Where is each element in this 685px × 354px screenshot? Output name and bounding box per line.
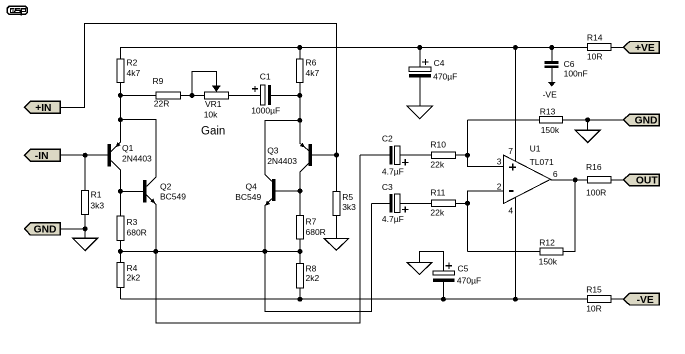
resistor R14: [587, 32, 611, 61]
wire Q2 collector branch: [120, 120, 155, 187]
wire R3 bottom stub: [119, 240, 121, 251]
resistor R7: [297, 215, 326, 239]
svg-text:4: 4: [508, 205, 513, 215]
wire pin2 riser and stub: [468, 191, 504, 251]
node Q3 base junction: [334, 153, 339, 158]
transistor Q1: [108, 142, 152, 191]
svg-text:C2: C2: [382, 134, 393, 144]
resistor R13: [540, 107, 563, 136]
wire emitter bus: [120, 250, 300, 252]
svg-text:GND: GND: [635, 116, 658, 127]
svg-text:C5: C5: [458, 264, 469, 274]
node R3/R4 bus: [118, 249, 123, 254]
resistor R3: [117, 216, 147, 240]
wire R14 to +VE tag: [611, 47, 623, 49]
svg-text:R10: R10: [430, 140, 446, 150]
wire R11 to pin2 node: [456, 202, 468, 204]
svg-text:100nF: 100nF: [564, 68, 588, 78]
wire C1 right to R6 node: [271, 94, 300, 96]
svg-text:R16: R16: [586, 162, 602, 172]
wire Q3 base stub: [312, 154, 337, 156]
node GND/R1 junction: [83, 226, 88, 231]
wire R16 to OUT tag: [611, 179, 623, 181]
node C5 on -V bus: [441, 297, 446, 302]
wire R4 bottom stub: [119, 287, 121, 299]
wire R15 to -VE tag: [611, 298, 623, 300]
svg-text:R6: R6: [306, 58, 317, 68]
svg-text:470µF: 470µF: [433, 71, 457, 81]
svg-text:R1: R1: [91, 190, 102, 200]
wire C3 to R11: [400, 202, 432, 204]
ground under R5: [324, 239, 349, 251]
ground right of R13: [575, 130, 600, 142]
node GND junction right: [585, 117, 590, 122]
svg-text:Q2: Q2: [160, 181, 172, 191]
svg-text:C3: C3: [382, 182, 393, 192]
svg-text:6: 6: [553, 169, 558, 179]
node C6 rail: [549, 45, 554, 50]
svg-text:680R: 680R: [306, 227, 326, 237]
svg-text:10R: 10R: [586, 304, 602, 314]
wire R6 bottom to Q3 emitter: [300, 82, 309, 150]
svg-text:C1: C1: [260, 71, 271, 81]
wire Q4 emitter to C3 loop: [265, 203, 372, 311]
svg-text:R4: R4: [127, 263, 138, 273]
svg-text:4k7: 4k7: [127, 68, 141, 78]
ground lower-left: [73, 238, 98, 250]
transistor Q2: [120, 180, 186, 251]
svg-text:C6: C6: [564, 59, 575, 69]
tag +IN: [25, 101, 61, 114]
wire pin6 output: [551, 179, 588, 181]
wire C3 left: [372, 202, 390, 204]
wire Q4 collector branch: [265, 120, 300, 181]
svg-text:4.7µF: 4.7µF: [382, 214, 404, 224]
wire pin3 riser and stub: [468, 120, 504, 167]
wire -V bus: [120, 298, 587, 300]
resistor R15: [586, 284, 611, 313]
tag -VE: [623, 293, 659, 306]
node pin7 rail: [513, 45, 518, 50]
svg-text:C4: C4: [434, 58, 445, 68]
svg-text:R9: R9: [153, 76, 164, 86]
node R6 top rail: [297, 45, 302, 50]
resistor R11: [430, 188, 455, 218]
node C4 rail: [417, 45, 422, 50]
node R8 on -V bus: [298, 297, 303, 302]
node Q3/Q4 collector junction: [297, 118, 302, 123]
ground near C5: [407, 263, 431, 275]
svg-text:2N4403: 2N4403: [122, 153, 152, 163]
wire R13 to GND tag: [563, 119, 624, 121]
transistor Q3: [267, 143, 312, 191]
wire R13 horizontal: [468, 119, 540, 121]
ground under C4: [407, 106, 432, 119]
wire R4 top stub: [119, 251, 121, 262]
svg-text:1000µF: 1000µF: [251, 105, 280, 115]
svg-text:Q4: Q4: [246, 181, 258, 191]
svg-text:Q3: Q3: [267, 146, 279, 156]
svg-text:22R: 22R: [154, 98, 170, 108]
svg-text:3: 3: [497, 156, 502, 166]
node -IN/R1 junction: [83, 153, 88, 158]
resistor R16: [586, 162, 611, 198]
wire R9 to VR1: [180, 94, 204, 96]
node Q1 emitter / Q2 collector branch: [118, 117, 123, 122]
node R11/R12/pin2 junction: [465, 201, 470, 206]
tag +VE: [623, 42, 659, 55]
wire R5 to ground: [336, 216, 338, 239]
svg-text:R14: R14: [587, 32, 603, 42]
svg-text:2k2: 2k2: [306, 273, 320, 283]
capacitor C2: [382, 134, 408, 177]
node R7/R8 bus: [298, 249, 303, 254]
wire R8 bottom stub: [299, 288, 301, 299]
wire R6 top stub: [299, 48, 301, 60]
svg-text:+VE: +VE: [635, 43, 655, 54]
node pin4 on -V bus: [513, 297, 518, 302]
wire R9 left: [120, 94, 156, 96]
wire R1 top stub: [84, 155, 86, 190]
wire R7 bottom stub: [299, 239, 301, 252]
tag -IN: [25, 149, 61, 162]
node C1/R6 junction: [297, 93, 302, 98]
svg-text:R11: R11: [430, 188, 445, 198]
svg-text:4k7: 4k7: [306, 68, 320, 78]
svg-text:470µF: 470µF: [457, 275, 481, 285]
svg-text:-VE: -VE: [543, 90, 558, 100]
svg-text:BC549: BC549: [235, 192, 261, 202]
resistor R2: [117, 58, 140, 83]
wire Q2 emitter to C2 loop: [156, 155, 360, 323]
svg-text:R8: R8: [306, 263, 317, 273]
wire VR1 to C1: [228, 94, 260, 96]
svg-text:-IN: -IN: [35, 151, 49, 162]
node output junction: [573, 177, 578, 182]
wire pin4 supply: [514, 197, 516, 299]
op-amp U1: [497, 143, 558, 215]
wire R1 bottom to GND tag and ground: [60, 229, 85, 238]
tag GND right: [623, 114, 659, 127]
svg-text:100R: 100R: [586, 188, 606, 198]
wire R8 top stub: [299, 251, 301, 263]
wire C2 left: [360, 154, 390, 156]
wire R12 to output node: [563, 180, 575, 252]
wire R10 to pin3 node: [456, 154, 468, 156]
svg-text:2k2: 2k2: [127, 273, 141, 283]
capacitor C6: [543, 48, 588, 100]
wire ground stem right: [587, 120, 589, 130]
svg-text:R12: R12: [539, 237, 555, 247]
wire pin7 supply: [514, 48, 516, 162]
transistor Q4: [235, 179, 300, 252]
resistor R4: [117, 263, 140, 288]
svg-text:3k3: 3k3: [342, 202, 356, 212]
potentiometer VR1: [192, 71, 228, 137]
resistor R6: [296, 58, 319, 83]
svg-text:2: 2: [497, 181, 502, 191]
capacitor C4: [409, 48, 457, 107]
wire -IN net: [60, 154, 107, 156]
wire R7 top stub: [299, 191, 301, 215]
svg-text:TL071: TL071: [530, 157, 554, 167]
capacitor C1: [251, 71, 280, 115]
node Q2 emitter bus: [153, 249, 158, 254]
svg-text:R5: R5: [342, 192, 353, 202]
svg-text:OUT: OUT: [636, 176, 658, 187]
node R10/R13/pin3 junction: [465, 153, 470, 158]
tag GND left: [25, 223, 61, 236]
svg-text:GND: GND: [34, 225, 57, 236]
capacitor C5: [419, 251, 481, 299]
svg-text:3k3: 3k3: [90, 200, 104, 210]
wire C2 to R10: [400, 154, 432, 156]
svg-text:Q1: Q1: [122, 143, 134, 153]
svg-text:Gain: Gain: [201, 125, 225, 137]
resistor R12: [539, 237, 563, 266]
node VR1 wiper junction: [190, 93, 195, 98]
tag OUT: [623, 174, 659, 187]
node R2/R9 junction: [118, 93, 123, 98]
wire R2 bottom / Q1 emitter riser: [119, 82, 121, 142]
svg-text:4.7µF: 4.7µF: [382, 166, 404, 176]
node Q4 emitter bus: [262, 249, 267, 254]
wire top +V rail: [120, 48, 587, 60]
resistor R8: [297, 263, 320, 288]
node Q3 collector / Q4 base / R7: [298, 188, 303, 193]
svg-text:2N4403: 2N4403: [267, 156, 297, 166]
svg-text:VR1: VR1: [205, 99, 222, 109]
svg-text:-VE: -VE: [637, 295, 654, 306]
svg-text:150k: 150k: [541, 125, 560, 135]
svg-text:22k: 22k: [430, 208, 444, 218]
svg-text:10k: 10k: [204, 110, 218, 120]
resistor R10: [430, 140, 455, 170]
wire R12 path: [468, 251, 541, 253]
resistor R9: [153, 76, 181, 109]
svg-text:7: 7: [508, 146, 513, 156]
svg-text:10R: 10R: [587, 51, 603, 61]
svg-text:R15: R15: [586, 284, 602, 294]
svg-text:BC549: BC549: [160, 192, 186, 202]
svg-text:680R: 680R: [127, 227, 147, 237]
resistor R1: [82, 190, 105, 215]
svg-text:+IN: +IN: [35, 103, 51, 114]
svg-text:R13: R13: [540, 107, 556, 117]
svg-text:U1: U1: [530, 143, 541, 153]
svg-text:R3: R3: [127, 217, 138, 227]
wire +IN net to Q3 base and R5: [60, 24, 336, 192]
resistor R5: [333, 192, 356, 216]
capacitor C3: [382, 182, 408, 224]
wire R3 stub: [119, 191, 121, 216]
svg-text:150k: 150k: [539, 257, 558, 267]
svg-text:R7: R7: [306, 217, 317, 227]
node Q1 collector / Q2 base / R3: [118, 189, 123, 194]
svg-text:R2: R2: [127, 58, 138, 68]
svg-text:22k: 22k: [430, 160, 444, 170]
ESP logo: [7, 6, 27, 15]
